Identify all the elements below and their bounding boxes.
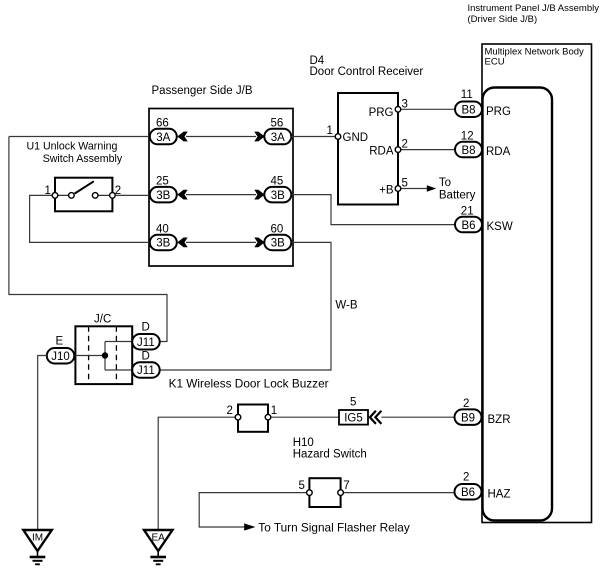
svg-text:21: 21 — [461, 205, 474, 217]
svg-text:Door Control Receiver: Door Control Receiver — [310, 66, 424, 78]
svg-text:RDA: RDA — [486, 146, 511, 158]
svg-text:B9: B9 — [461, 412, 475, 424]
svg-text:KSW: KSW — [487, 221, 513, 233]
chevrons at IG5 — [370, 411, 382, 424]
svg-text:3A: 3A — [271, 132, 285, 144]
connector J10 — [47, 348, 75, 364]
connector 3A pin 56 — [264, 129, 291, 145]
svg-text:40: 40 — [156, 223, 169, 235]
svg-text:IM: IM — [32, 532, 43, 543]
hazard switch H10 box — [309, 478, 340, 507]
connector B8 pin 11 — [455, 102, 482, 118]
label Instrument Panel J/B Assembly — [468, 3, 600, 25]
svg-text:K1 Wireless Door Lock Buzzer: K1 Wireless Door Lock Buzzer — [169, 377, 329, 391]
pin 2 of K1 — [235, 414, 241, 420]
wire U1 pin1 down to J/B row3 — [30, 195, 151, 242]
svg-text:J/C: J/C — [94, 314, 111, 326]
Passenger Side J/B box — [149, 109, 293, 267]
wire inside J/C vertical bus — [104, 342, 106, 371]
wire vertical left edge down — [9, 137, 167, 342]
connector B6 pin 21 — [455, 217, 482, 233]
connector B6 pin 2 — [455, 484, 482, 500]
label To Battery — [439, 177, 476, 202]
svg-text:11: 11 — [461, 89, 473, 101]
receiver D4 box — [338, 93, 398, 205]
wire D4 pin3 to ECU PRG — [398, 108, 456, 110]
svg-text:HAZ: HAZ — [488, 488, 511, 500]
junction dot — [102, 352, 108, 358]
svg-text:J11: J11 — [137, 337, 155, 349]
svg-text:60: 60 — [271, 223, 284, 235]
arrow row1 right — [254, 132, 264, 142]
connector J11 top — [132, 334, 160, 350]
arrow to turn signal flasher relay — [244, 523, 255, 530]
label D4 Door Control Receiver — [310, 55, 424, 78]
svg-text:To: To — [439, 177, 451, 189]
svg-text:7: 7 — [343, 480, 349, 492]
buzzer K1 box — [238, 405, 268, 432]
svg-text:To Turn Signal Flasher Relay: To Turn Signal Flasher Relay — [258, 521, 410, 535]
fuse IG5 — [339, 410, 368, 425]
svg-text:3B: 3B — [271, 190, 285, 202]
pin 2 of U1 — [110, 193, 116, 199]
connector 3B pin 60 — [264, 235, 291, 251]
svg-text:PRG: PRG — [369, 107, 394, 119]
Instrument Panel J/B outer box — [482, 44, 592, 523]
arrow row2 right — [254, 190, 264, 200]
svg-text:3B: 3B — [271, 238, 285, 250]
label Multiplex Network Body ECU — [485, 47, 585, 68]
wire J/B 45 to ECU KSW — [292, 195, 457, 225]
wire hazard pin5 left and down to arrow — [199, 493, 309, 527]
svg-text:2: 2 — [402, 138, 408, 150]
svg-text:H10: H10 — [293, 437, 314, 449]
wire J/B row2 internal — [186, 194, 256, 196]
svg-text:D: D — [142, 322, 150, 334]
svg-text:B6: B6 — [461, 220, 475, 232]
arrow row2 left — [177, 190, 187, 200]
svg-text:E: E — [56, 336, 64, 348]
svg-text:B6: B6 — [461, 487, 475, 499]
svg-text:3B: 3B — [156, 238, 170, 250]
wire J/B row3 internal — [186, 241, 256, 243]
ground EA — [144, 530, 173, 564]
svg-text:2: 2 — [227, 405, 233, 417]
wire GND row: J/B 56 to D4 pin1 — [292, 136, 339, 138]
svg-text:25: 25 — [156, 176, 169, 188]
svg-text:Battery: Battery — [439, 189, 476, 201]
svg-text:ECU: ECU — [485, 57, 505, 68]
wire J/B row1 internal — [186, 136, 256, 138]
connector B8 pin 12 — [455, 142, 482, 158]
dashed partition lines of J/C — [89, 326, 117, 384]
svg-text:Switch Assembly: Switch Assembly — [43, 153, 123, 165]
wire row1 from Passenger J/B left to corner — [9, 136, 150, 138]
pin 1 of U1 — [52, 193, 58, 199]
svg-text:1: 1 — [327, 125, 333, 137]
svg-text:2: 2 — [463, 472, 469, 484]
svg-text:3: 3 — [402, 99, 408, 111]
svg-text:IG5: IG5 — [344, 413, 363, 425]
wire buzzer pin1 to IG5 — [268, 416, 339, 418]
connector J11 bottom — [132, 362, 160, 378]
svg-text:2: 2 — [115, 185, 121, 197]
wire U1 pin2 to J/B row2 — [112, 194, 151, 196]
svg-text:D: D — [142, 351, 150, 363]
connector 3B pin 25 — [150, 187, 177, 203]
svg-text:B8: B8 — [461, 105, 475, 117]
ground IM — [23, 530, 52, 564]
ECU U1 Multiplex Network Body ECU block — [483, 88, 553, 521]
svg-text:66: 66 — [156, 118, 169, 130]
svg-text:J11: J11 — [137, 365, 155, 377]
wire inside J/C from J10 to junction — [74, 355, 105, 357]
pin 1 of K1 — [265, 414, 271, 420]
arrow row3 right — [254, 238, 264, 248]
pin 1 of D4 — [335, 134, 341, 140]
wire hazard pin7 to ECU HAZ — [341, 492, 455, 494]
svg-text:U1 Unlock Warning: U1 Unlock Warning — [27, 141, 118, 153]
svg-text:1: 1 — [45, 185, 51, 197]
svg-text:EA: EA — [152, 532, 166, 543]
wire inside J/C to bottom J11 — [105, 369, 132, 371]
pin 7 of H10 — [338, 490, 344, 496]
svg-text:45: 45 — [271, 176, 284, 188]
arrow row3 left — [177, 238, 187, 248]
svg-text:B8: B8 — [461, 145, 475, 157]
pin 2 of D4 — [395, 147, 401, 153]
svg-text:RDA: RDA — [369, 146, 394, 158]
wire IG5 to ECU BZR — [381, 416, 455, 418]
junction connector J/C box — [75, 326, 132, 384]
label H10 Hazard Switch — [293, 437, 367, 460]
label U1 Unlock Warning Switch Assembly — [27, 141, 123, 166]
svg-text:1: 1 — [271, 405, 277, 417]
connector B9 pin 2 — [455, 409, 482, 425]
switch U1 box — [55, 178, 112, 212]
svg-text:5: 5 — [402, 177, 408, 189]
connector 3B pin 45 — [264, 187, 291, 203]
svg-text:5: 5 — [350, 397, 356, 409]
connector 3A pin 66 — [150, 129, 177, 145]
svg-text:Hazard Switch: Hazard Switch — [293, 449, 367, 461]
svg-text:3A: 3A — [156, 132, 170, 144]
svg-text:(Driver Side J/B): (Driver Side J/B) — [468, 14, 538, 25]
arrow to battery — [427, 185, 436, 191]
svg-text:BZR: BZR — [488, 414, 511, 426]
pin 5 of H10 — [307, 490, 313, 496]
svg-text:56: 56 — [271, 118, 284, 130]
pin 3 of D4 — [395, 107, 401, 113]
svg-text:J10: J10 — [51, 351, 70, 363]
wire D4 pin2 to ECU RDA — [398, 149, 456, 151]
wire D4 pin5 to battery arrow — [398, 188, 428, 190]
wire buzzer pin2 to EA ground — [158, 417, 238, 530]
connector 3B pin 40 — [150, 235, 177, 251]
svg-text:W-B: W-B — [335, 300, 357, 312]
pin 5 of D4 — [395, 186, 401, 192]
wire inside J/C to top J11 — [105, 341, 132, 343]
svg-text:2: 2 — [463, 398, 469, 410]
switch U1 contacts and blade — [55, 181, 112, 198]
svg-text:Passenger Side J/B: Passenger Side J/B — [152, 85, 253, 97]
svg-text:5: 5 — [299, 480, 305, 492]
svg-text:Instrument Panel J/B Assembly: Instrument Panel J/B Assembly — [468, 3, 600, 14]
svg-text:+B: +B — [379, 185, 394, 197]
svg-text:12: 12 — [461, 130, 474, 142]
svg-text:3B: 3B — [156, 190, 170, 202]
svg-text:PRG: PRG — [486, 106, 511, 118]
wire J10 to IM ground — [38, 356, 47, 531]
arrow row1 left — [177, 132, 187, 142]
wire J/B 60 down W-B to J/C J11 — [159, 242, 331, 370]
svg-text:GND: GND — [343, 132, 369, 144]
